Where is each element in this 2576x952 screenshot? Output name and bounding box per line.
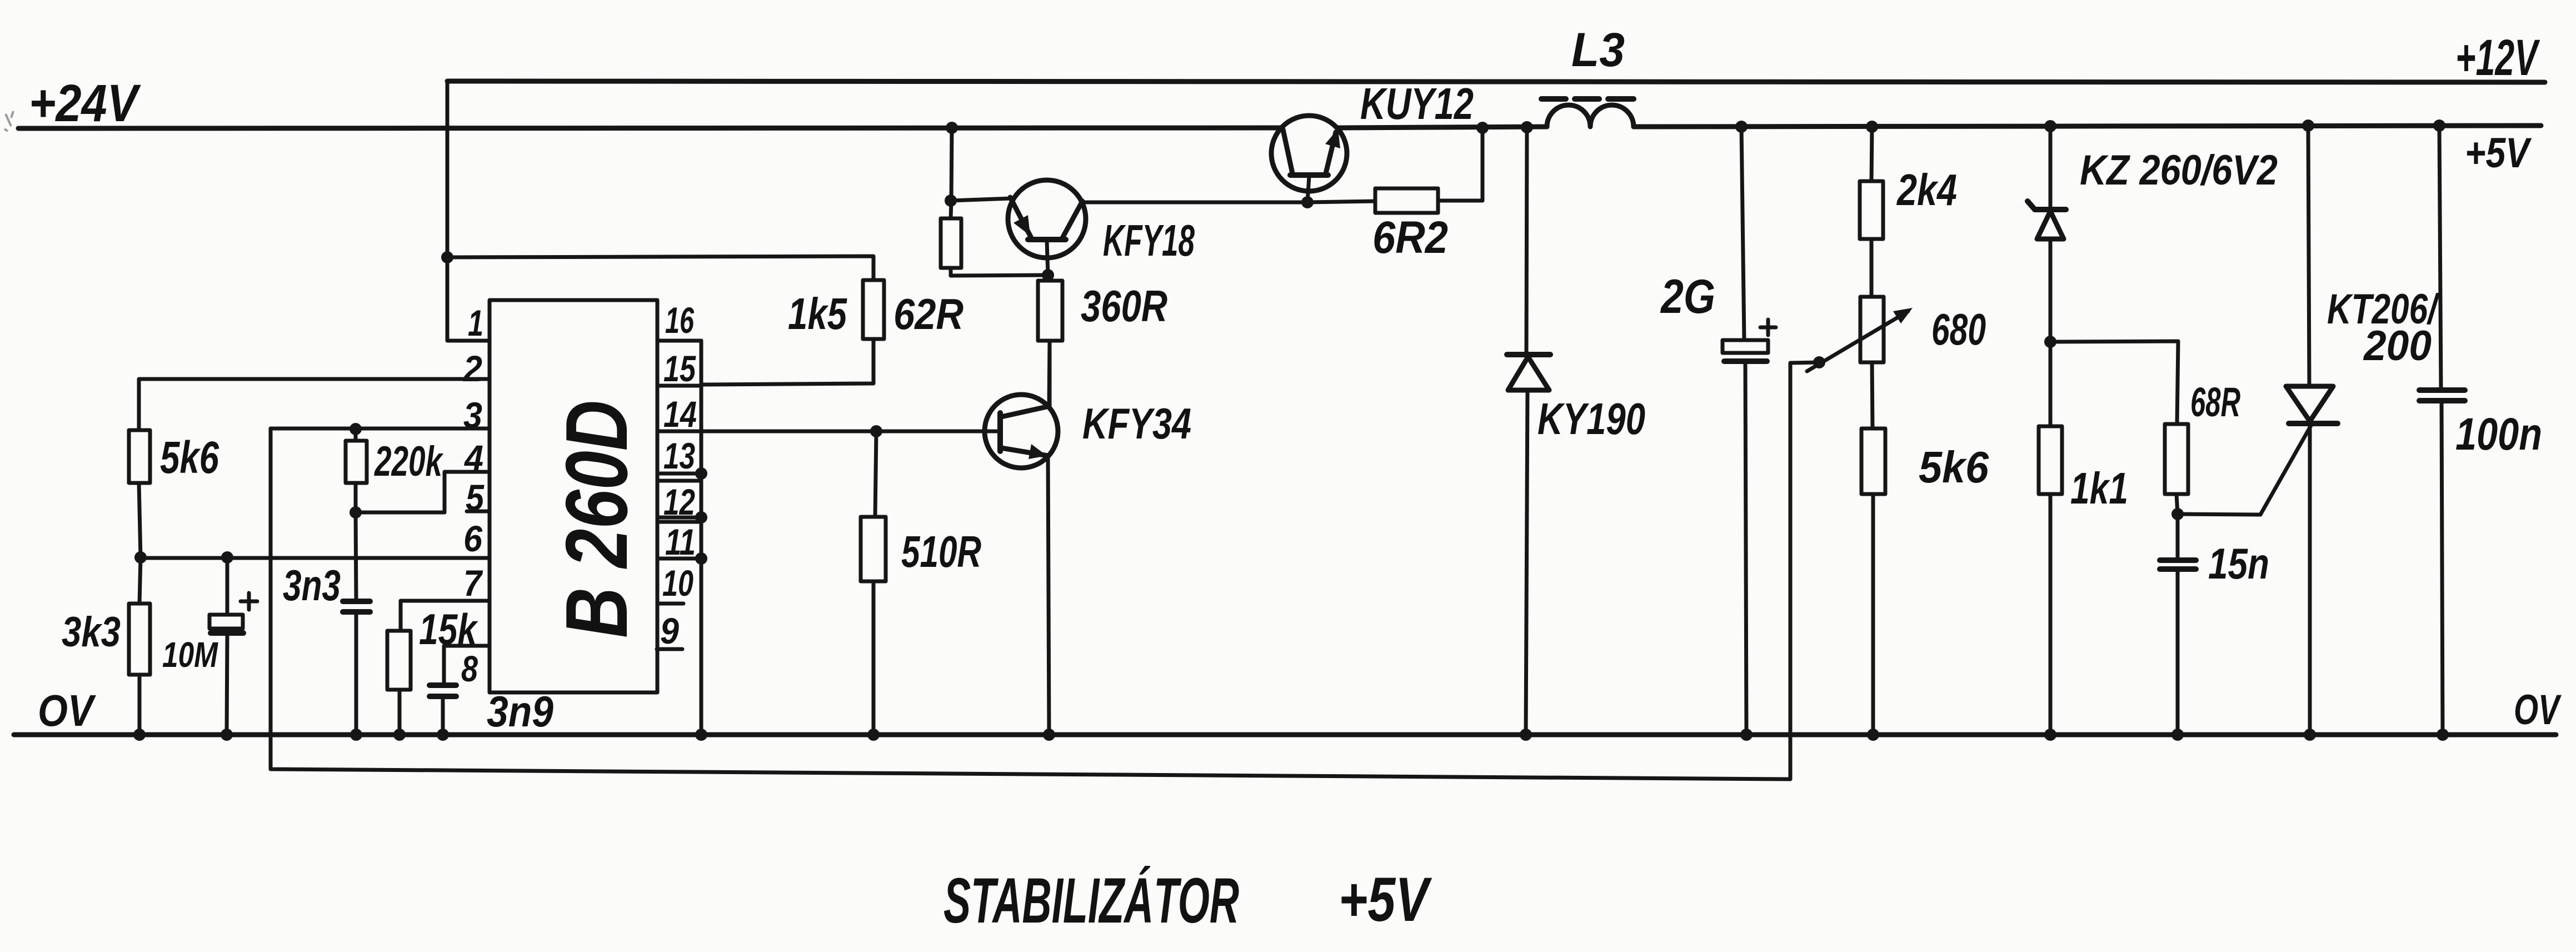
pin 5 number [466, 477, 485, 518]
value 62R [893, 290, 963, 338]
junction 15k on 0V [393, 729, 406, 741]
svg-text:KUY12: KUY12 [1360, 79, 1474, 128]
junction 510R top [870, 425, 882, 437]
resistor R 1k1 [2039, 342, 2062, 735]
capacitor C 10M electrolytic [209, 557, 243, 735]
junction KY190 on rail [1521, 121, 1533, 133]
svg-text:15: 15 [663, 348, 696, 389]
wire KFY18 collector to KUY12 base [1082, 201, 1307, 205]
junction wiper node [1813, 356, 1825, 368]
capacitor C 3n9 [430, 685, 456, 735]
svg-text:1k5: 1k5 [788, 289, 847, 338]
svg-text:10: 10 [662, 562, 693, 604]
value 680 [1931, 305, 1986, 354]
label KFY34 [1082, 399, 1191, 448]
capacitor C 15n [2160, 514, 2196, 735]
svg-text:5k6: 5k6 [160, 432, 219, 483]
transistor Q KFY34 [985, 395, 1058, 468]
wire pin6 node line [141, 556, 490, 560]
junction 3n3 on 0V [350, 729, 362, 741]
svg-text:16: 16 [665, 300, 695, 341]
junction 2G on rail [1735, 121, 1748, 133]
svg-text:2: 2 [462, 348, 482, 389]
thyristor KT206/200 [2260, 126, 2338, 735]
wire feedback return line bottom [271, 362, 1819, 779]
pin 6 number [463, 518, 483, 559]
junction 5k6 on 0V [1867, 729, 1879, 741]
junction 510R on 0V [867, 729, 880, 741]
wire 5k6 bottom to node A [139, 483, 141, 558]
junction 3k3 on 0V [133, 729, 146, 741]
diode D KZ260/6V2 zener [2028, 126, 2066, 342]
svg-text:510R: 510R [901, 527, 981, 576]
svg-text:68R: 68R [2190, 379, 2240, 425]
wire pin5 stub [467, 510, 490, 514]
value 360R [1081, 281, 1167, 331]
transistor Q KUY12 [1271, 116, 1347, 202]
pin 4 number [463, 437, 483, 479]
IC U1 vertical label B260D [548, 400, 646, 638]
wire +5V rail from KUY12 to L3 [1337, 127, 1547, 128]
junction KUY12 base node [1301, 196, 1314, 208]
potentiometer R 680 [1860, 297, 1884, 428]
svg-text:+5V: +5V [2465, 129, 2532, 177]
wire pin7 to 15k [401, 601, 490, 631]
pin 12 number [663, 481, 695, 522]
junction KFY34 emitter on 0V [1043, 729, 1055, 741]
svg-text:KY190: KY190 [1537, 394, 1645, 443]
scan artifact top-left [4, 111, 13, 131]
wire KFY34 collector to 360R [1049, 341, 1050, 406]
pin 8 number [461, 648, 478, 689]
pin 15 number [663, 348, 696, 389]
inductor L3 core dashes [1541, 96, 1634, 102]
wire pin4 jog [356, 472, 490, 512]
label KT206/ [2327, 286, 2440, 333]
pin 7 number [463, 562, 483, 604]
value 10M [162, 635, 218, 675]
label KZ 260/6V2 [2080, 147, 2278, 194]
resistor R 2k4 [1860, 127, 1883, 297]
resistor R 15k [387, 631, 411, 735]
value 6R2 [1372, 212, 1448, 263]
junction thyristor on 0V [2304, 729, 2316, 741]
pin 11 number [665, 521, 696, 562]
value 2G [1660, 270, 1715, 323]
pin 12 tab [657, 481, 701, 517]
junction 1k1 on 0V [2044, 729, 2056, 741]
value 68R [2190, 379, 2240, 425]
wire pin8 to 3n9 [444, 646, 490, 685]
label 200 [2363, 322, 2432, 370]
junction 10M on 0V [221, 729, 233, 741]
svg-text:14: 14 [663, 393, 697, 435]
pin 13 tab [657, 431, 701, 473]
svg-text:680: 680 [1931, 305, 1986, 354]
junction pin16 bus on 0V [695, 729, 707, 741]
value 3n3 [283, 561, 341, 610]
wire pin14 to KFY34 base [701, 430, 999, 433]
svg-text:KFY18: KFY18 [1103, 216, 1195, 265]
pin 14 number [663, 393, 697, 435]
inductor L3 coil [1547, 105, 1634, 127]
value 3k3 [62, 609, 121, 656]
pin 9 number [660, 610, 679, 651]
svg-text:10M: 10M [162, 635, 218, 675]
value 3n9 [487, 687, 554, 736]
resistor R 5k6 right [1861, 428, 1885, 735]
pin 11 tab [657, 522, 701, 559]
junction 62R on +24V rail [946, 122, 958, 134]
pin 13 number [663, 435, 695, 476]
resistor R 5k6 left [129, 430, 150, 483]
10M plus sign [241, 593, 257, 610]
node 0V label right [2514, 686, 2562, 734]
svg-text:15n: 15n [2208, 539, 2269, 588]
svg-text:OV: OV [38, 686, 96, 735]
wire zener node to 68R [2050, 341, 2178, 424]
capacitor C 3n3 [343, 512, 370, 735]
2G plus sign [1760, 320, 1776, 335]
svg-text:1k1: 1k1 [2070, 463, 2128, 513]
wire KFY34 emitter to 0V [1048, 456, 1049, 735]
junction 100n on rail [2433, 119, 2445, 132]
svg-text:7: 7 [463, 562, 483, 604]
pin 14 tab [657, 386, 701, 431]
node +5V label [2465, 129, 2532, 177]
label KY190 [1537, 394, 1645, 443]
capacitor C 2G electrolytic [1723, 127, 1768, 735]
svg-text:B 260D: B 260D [548, 400, 646, 638]
svg-text:+24V: +24V [29, 74, 141, 133]
title +5V [1339, 865, 1432, 934]
svg-text:2k4: 2k4 [1896, 165, 1957, 215]
svg-text:220k: 220k [374, 438, 444, 485]
svg-text:3n3: 3n3 [283, 561, 341, 610]
svg-text:100n: 100n [2455, 409, 2542, 460]
svg-text:13: 13 [663, 435, 695, 476]
junction thyristor on rail [2302, 119, 2314, 132]
svg-text:200: 200 [2363, 322, 2432, 370]
resistor R 62R [941, 128, 1047, 276]
pin 3 number [463, 395, 482, 436]
node +24V label [29, 74, 141, 133]
wire pin3 line [271, 427, 490, 431]
wire +24V rail left segment [18, 128, 1281, 128]
junction 220k top [350, 423, 362, 435]
value 1k1 [2070, 463, 2128, 513]
svg-text:L3: L3 [1571, 23, 1625, 77]
pin 16 number [665, 300, 695, 341]
wire KFY18 emitter [951, 198, 1011, 201]
label KFY18 [1103, 216, 1195, 265]
IC U1 B260D body [490, 300, 657, 692]
junction 10M top [221, 551, 233, 564]
junction 15n on 0V [2171, 729, 2184, 741]
junction 68R bottom node [2171, 508, 2184, 520]
value 5k6 left [160, 432, 219, 483]
svg-text:12: 12 [663, 481, 695, 522]
svg-text:+5V: +5V [1339, 865, 1432, 934]
wire branch to 1k5 top [447, 256, 873, 280]
svg-text:2G: 2G [1660, 270, 1715, 323]
svg-text:6R2: 6R2 [1372, 212, 1448, 263]
junction pin13 on bus [695, 467, 707, 480]
wire pin1 drop from +12V rail [447, 81, 490, 341]
pin 15 tab [657, 341, 701, 386]
wire pin16 to ground bus vertical [700, 341, 703, 735]
transistor Q KFY18 [1008, 180, 1086, 275]
svg-text:+12V: +12V [2455, 29, 2540, 86]
svg-text:5k6: 5k6 [1919, 442, 1989, 492]
junction 100n on 0V [2437, 729, 2449, 741]
resistor R 3k3 [129, 557, 150, 735]
junction zener on rail [2044, 120, 2056, 132]
value 510R [901, 527, 981, 576]
svg-text:11: 11 [665, 521, 696, 562]
pin 10 number [662, 562, 693, 604]
svg-text:OV: OV [2514, 686, 2562, 734]
resistor R 6R2 [1307, 128, 1482, 213]
svg-text:STABILIZÁTOR: STABILIZÁTOR [943, 865, 1239, 936]
resistor R 510R [861, 431, 886, 735]
svg-text:KZ 260/6V2: KZ 260/6V2 [2080, 147, 2278, 194]
junction 6R2 on rail [1476, 122, 1489, 134]
value 15n [2208, 539, 2269, 588]
resistor R 220k [346, 429, 367, 512]
label KUY12 [1360, 79, 1474, 128]
value 15k [419, 605, 478, 654]
junction node A [134, 551, 147, 564]
value 100n [2455, 409, 2542, 460]
junction 3n9 on 0V [437, 729, 449, 741]
capacitor C 100n [2419, 126, 2465, 735]
value 220k [374, 438, 444, 485]
potentiometer 680 wiper arrow [1807, 308, 1913, 371]
svg-text:KFY34: KFY34 [1082, 399, 1191, 448]
junction zener bottom node [2044, 336, 2056, 348]
svg-text:9: 9 [660, 610, 679, 651]
pin 9 underline [657, 647, 682, 651]
junction pin12 on bus [695, 511, 707, 524]
resistor R 360R [1038, 275, 1062, 406]
wire +12V top rail [447, 81, 2545, 82]
value 2k4 [1896, 165, 1957, 215]
svg-text:62R: 62R [893, 290, 963, 338]
junction 2k4 on rail [1866, 121, 1878, 133]
diode D KY190 [1507, 127, 1550, 735]
pin 9 overline [658, 602, 683, 606]
svg-text:3n9: 3n9 [487, 687, 554, 736]
junction KY190 on 0V [1520, 729, 1532, 741]
junction 62R emitter tap [945, 195, 957, 207]
value 1k5 [788, 289, 847, 338]
value 5k6 right [1919, 442, 1989, 492]
svg-text:6: 6 [463, 518, 483, 559]
junction 220k bottom [350, 506, 362, 519]
node 0V label left [38, 686, 96, 735]
node +12V label [2455, 29, 2540, 86]
junction 2G on 0V [1740, 729, 1753, 741]
svg-text:1: 1 [468, 302, 483, 343]
resistor R 68R [2165, 424, 2188, 514]
junction KFY18 base node [1042, 269, 1054, 281]
title STABILIZATOR [943, 865, 1239, 936]
resistor R 1k5 [863, 280, 884, 339]
junction on pin1 drop [441, 251, 453, 263]
svg-text:8: 8 [461, 648, 478, 689]
junction pin11 on bus [695, 552, 707, 565]
wire pin2 to 5k6 [139, 379, 490, 430]
wire 0V rail [14, 732, 2556, 737]
pin 2 number [462, 348, 482, 389]
wire 1k5 bottom to pin15 [701, 339, 873, 385]
label L3 [1571, 23, 1625, 77]
svg-text:3k3: 3k3 [62, 609, 121, 656]
svg-text:360R: 360R [1081, 281, 1167, 331]
pin 1 number [468, 302, 483, 343]
wire gate tap horizontal [2178, 514, 2260, 515]
wire +5V rail from L3 to right edge [1634, 126, 2541, 127]
